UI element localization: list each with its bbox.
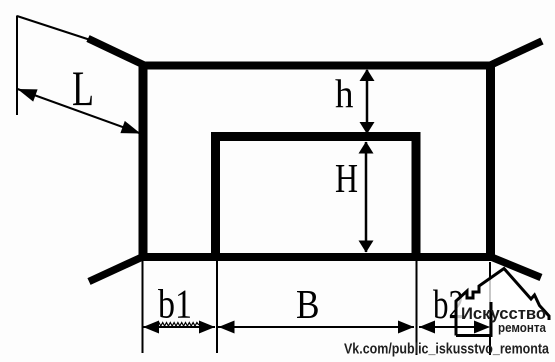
svg-text:b1: b1 [158,281,192,327]
dimension H arrowhead up [359,142,374,154]
svg-text:Vk.com/public_iskusstvo_remont: Vk.com/public_iskusstvo_remonta [344,341,550,358]
b1 squiggle [157,323,199,327]
dimension b1 arrowhead right [199,321,215,334]
top-left thin extension vertical [16,16,18,116]
svg-text:B: B [296,281,320,327]
outer rectangle right edge [486,62,495,262]
dimension b1 line [143,326,215,328]
top-right corner leg [488,41,543,67]
dimension b2 line over logo [452,326,476,328]
dimension h arrowhead down [360,122,375,134]
extension line outer-right [489,262,491,355]
extension line outer-left [142,259,144,353]
bottom-right corner leg [488,256,542,278]
dimension L arrowhead lower-right [120,121,140,134]
watermark logo roof outline [456,269,549,336]
dimension B line [218,326,414,328]
bottom-left corner leg [89,256,146,282]
dimension L arrowhead upper-left [18,89,38,102]
outer rectangle top edge [139,62,496,70]
svg-text:ремонта: ремонта [498,320,547,335]
dimension H line [365,142,368,252]
dimension h line [366,70,369,134]
inner rectangle right edge [412,132,421,257]
extension line inner-left [216,259,218,353]
svg-text:L: L [72,60,94,116]
outer rectangle bottom edge [139,253,496,261]
watermark logo house base [456,302,491,336]
dimension H arrowhead down [359,241,374,253]
dimension B arrowhead left [219,321,235,334]
outer rectangle left edge [139,62,148,262]
top-left corner leg thick [88,39,146,67]
dimension b1 arrowhead left [143,321,159,334]
svg-text:h: h [335,71,354,116]
inner rectangle left edge [211,132,220,257]
dimension h arrowhead up [360,69,375,81]
dimension L line [18,89,141,134]
svg-text:H: H [335,155,358,201]
dimension b2 arrowhead right [474,321,490,334]
inner rectangle top edge [211,132,421,141]
dimension B arrowhead right [398,321,414,334]
watermark logo fill [456,269,549,336]
dimension b2 line [419,326,489,328]
dimension b2 arrowhead left [419,321,435,334]
extension line inner-right [416,259,418,355]
top-left thin extension diagonal [17,16,95,42]
